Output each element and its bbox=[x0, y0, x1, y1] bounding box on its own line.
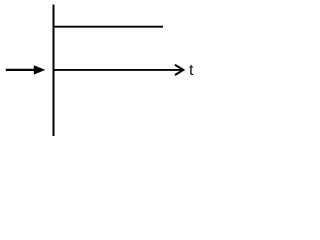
vertical line bbox=[53, 5, 55, 137]
arrowhead of time axis bbox=[176, 65, 184, 74]
wire time axis bbox=[53, 69, 183, 71]
svg-text:t: t bbox=[189, 62, 194, 79]
wire top horizontal segment bbox=[53, 26, 164, 28]
wire left input arrow shaft bbox=[6, 69, 37, 71]
arrowhead of left input arrow bbox=[34, 65, 45, 74]
